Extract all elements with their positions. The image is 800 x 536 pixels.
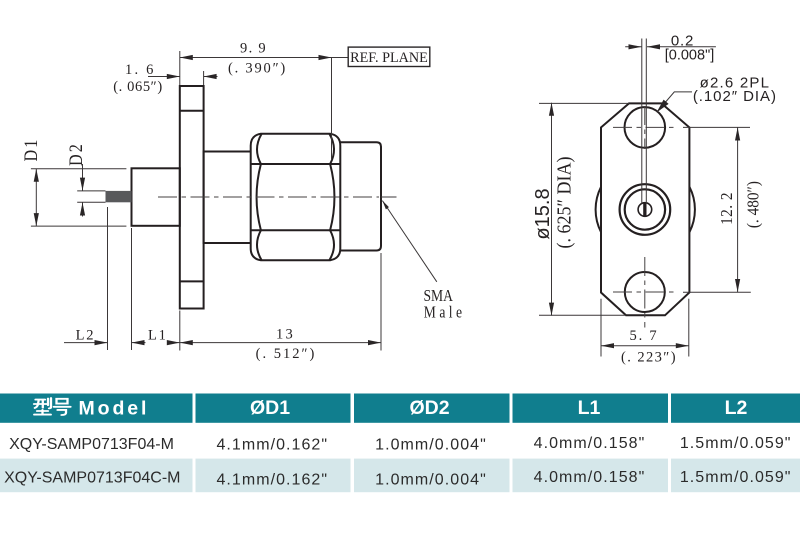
SMA Male leader — [382, 201, 436, 282]
pin slot — [643, 203, 646, 216]
svg-text:(. 480″): (. 480″) — [745, 181, 763, 228]
flange side view — [180, 86, 204, 309]
svg-text:(. 625″ DIA): (. 625″ DIA) — [554, 157, 576, 249]
svg-text:XQY-SAMP0713F04C-M: XQY-SAMP0713F04C-M — [4, 470, 180, 487]
bottom dimension row: extension lines — [107, 207, 109, 350]
hex facet line lower — [251, 229, 340, 231]
bottom mounting hole — [625, 272, 665, 312]
svg-text:Male: Male — [424, 303, 466, 322]
dimension L2 — [64, 342, 108, 344]
svg-text:D1: D1 — [20, 138, 42, 162]
middle barrel — [204, 152, 252, 244]
dimension 1.6 — [203, 71, 205, 85]
svg-text:4.1mm/0.162": 4.1mm/0.162" — [216, 437, 328, 454]
centerline bottom hole vertical — [644, 257, 646, 328]
svg-text:(. 223″): (. 223″) — [621, 350, 677, 366]
svg-text:D2: D2 — [65, 142, 87, 166]
header row — [0, 394, 193, 423]
svg-text:1.5mm/0.059": 1.5mm/0.059" — [680, 435, 792, 452]
svg-text:L1: L1 — [148, 328, 168, 344]
svg-text:(. 512″): (. 512″) — [256, 346, 317, 362]
svg-text:12. 2: 12. 2 — [718, 192, 736, 225]
dimension D1 — [31, 168, 127, 170]
flange octagon — [601, 103, 689, 315]
centerline top hole horizontal — [613, 126, 677, 128]
svg-text:4.1mm/0.162": 4.1mm/0.162" — [216, 471, 328, 488]
svg-text:L1: L1 — [578, 397, 601, 419]
center pin circle — [638, 203, 652, 217]
center outer ring — [620, 184, 671, 235]
svg-text:ø15.8: ø15.8 — [532, 188, 554, 239]
dimension 12.2 — [683, 126, 750, 128]
body circle bulges — [596, 187, 601, 232]
centerline top hole vertical — [644, 106, 646, 149]
hex facet line upper — [251, 163, 340, 165]
svg-text:5. 7: 5. 7 — [630, 328, 659, 344]
REF. PLANE box — [348, 47, 430, 66]
svg-text:Model: Model — [79, 398, 150, 420]
svg-text:1.5mm/0.059": 1.5mm/0.059" — [680, 469, 792, 486]
svg-text:1.0mm/0.004": 1.0mm/0.004" — [375, 437, 487, 454]
svg-text:L2: L2 — [76, 328, 96, 344]
dimension L1 — [132, 342, 146, 344]
svg-text:ØD1: ØD1 — [250, 397, 290, 419]
pin extension lines — [77, 190, 105, 192]
dimension 5.7 — [600, 299, 602, 357]
svg-text:9. 9: 9. 9 — [240, 41, 267, 57]
CJK glyph Xing (model) — [34, 398, 51, 415]
svg-text:L2: L2 — [725, 397, 748, 419]
svg-text:[0.008"]: [0.008"] — [665, 47, 715, 63]
CJK glyph Hao (number) — [54, 399, 71, 415]
svg-text:4.0mm/0.158": 4.0mm/0.158" — [534, 435, 646, 452]
svg-text:ØD2: ØD2 — [409, 397, 449, 419]
center inner ring — [625, 189, 665, 229]
svg-text:1. 6: 1. 6 — [125, 62, 156, 78]
dimension 0.2 extension lines — [641, 39, 643, 204]
REF plane line — [331, 58, 333, 161]
header: 型号 Model — [34, 398, 71, 415]
svg-text:REF. PLANE: REF. PLANE — [350, 50, 428, 66]
dimension 13 — [180, 342, 381, 344]
leader phi2.6 — [657, 92, 692, 112]
svg-text:4.0mm/0.158": 4.0mm/0.158" — [534, 469, 646, 486]
dimension phi15.8 — [539, 102, 629, 104]
svg-text:1.0mm/0.004": 1.0mm/0.004" — [375, 471, 487, 488]
dimension 9.9 — [179, 51, 181, 85]
centerline axis — [158, 196, 379, 198]
rear body — [132, 168, 180, 226]
row 2 background — [0, 459, 193, 493]
hex nut — [251, 134, 341, 260]
front barrel — [340, 142, 381, 250]
hex facet arcs — [257, 164, 261, 230]
svg-text:XQY-SAMP0713F04-M: XQY-SAMP0713F04-M — [9, 436, 174, 453]
svg-text:13: 13 — [276, 327, 295, 343]
svg-text:(. 065″): (. 065″) — [113, 79, 163, 95]
top mounting hole — [625, 107, 666, 148]
center pin — [106, 191, 132, 202]
centerline bottom hole horizontal — [613, 291, 677, 293]
svg-text:(.102″ DIA): (.102″ DIA) — [693, 88, 777, 105]
dimension D2 — [82, 164, 84, 191]
dimension 0.2 — [625, 46, 641, 48]
svg-text:(. 390″): (. 390″) — [228, 61, 287, 77]
